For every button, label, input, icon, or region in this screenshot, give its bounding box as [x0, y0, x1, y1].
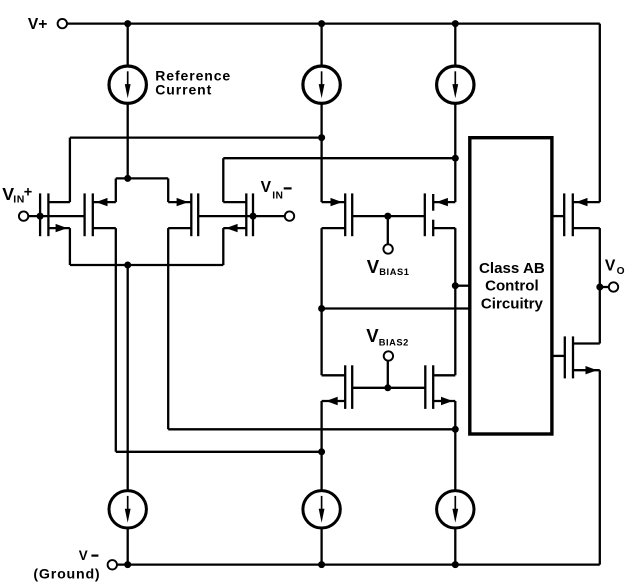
wire M2 source up to tail: [115, 178, 117, 202]
wire right summing node to Class AB box: [455, 285, 470, 287]
node left summing junction: [318, 305, 325, 312]
node NMOS tail junction: [124, 262, 131, 269]
terminal V+: [58, 19, 67, 28]
svg-text:Class AB: Class AB: [479, 260, 545, 277]
node PMOS tail junction: [124, 175, 131, 182]
wire M2 drain down to cross wire: [115, 228, 117, 452]
wire M10 source down to V- rail: [599, 370, 601, 564]
Class AB control circuitry box: [470, 138, 552, 434]
label V- (Ground): [33, 548, 100, 582]
transistor M2 (PMOS, non-inverting input): [85, 193, 116, 236]
transistor M1 (NMOS, non-inverting input): [40, 193, 70, 236]
transistor M6 (PMOS cascode, right, broken channel): [425, 193, 456, 236]
svg-text:BIAS1: BIAS1: [379, 267, 409, 277]
svg-text:+: +: [24, 185, 32, 201]
wire left summing node down to M7 drain: [320, 309, 322, 376]
svg-text:V: V: [605, 257, 616, 274]
label VBIAS1: [367, 256, 410, 277]
wire VBIAS1 stem: [387, 216, 389, 244]
transistor M7 (NMOS cascode, left): [322, 365, 353, 409]
transistor M10 (NMOS output): [565, 336, 600, 378]
node A junction of I2 with bus from M1 drain: [318, 134, 325, 141]
svg-text:Circuitry: Circuitry: [481, 295, 544, 312]
terminal VBIAS1: [383, 244, 392, 253]
wire right edge from V+ rail down to M9 source: [599, 24, 601, 203]
svg-text:V: V: [261, 179, 272, 196]
wire M3 drain down to cross wire: [167, 228, 169, 429]
wire M1 drain riser: [69, 138, 71, 203]
wire I4 to V- rail: [127, 528, 129, 565]
wire VBIAS1 gate wire M5 to M6: [352, 215, 425, 217]
svg-text:Current: Current: [155, 82, 212, 98]
label Class AB Control Circuitry: [479, 260, 545, 312]
wire node A down to M5 source: [320, 138, 322, 203]
node output junction: [596, 284, 603, 291]
wire M8 source down to current source I6: [454, 401, 456, 491]
wire M6 drain down to M8 drain: [454, 228, 456, 375]
wire M5 drain down to left summing node: [320, 228, 322, 308]
svg-text:V: V: [79, 548, 88, 563]
wire M9 drain down to output node: [599, 228, 601, 343]
wire M2 drain cross wire: [116, 451, 322, 453]
label VIN-: [261, 179, 292, 201]
node junction I5 at V- rail: [318, 561, 325, 568]
current source I2: [303, 66, 340, 103]
node junction on V+ rail at reference current column: [124, 20, 131, 27]
node junction I4 at V- rail: [124, 561, 131, 568]
wire node B down to M6 source: [454, 158, 456, 202]
wire I5 to V- rail: [320, 528, 322, 565]
node junction M2 drain with M7 source: [318, 448, 325, 455]
svg-text:IN: IN: [272, 190, 283, 201]
terminal VBIAS2: [384, 351, 393, 360]
node junction on V+ rail at third current source column: [452, 20, 459, 27]
svg-text:V: V: [367, 256, 380, 277]
wire VBIAS2 stem: [387, 361, 389, 388]
svg-text:Control: Control: [485, 278, 539, 295]
current source I6: [437, 491, 474, 528]
wire I3 output down to node B: [454, 103, 456, 158]
wire M3 drain cross wire: [168, 428, 455, 430]
node right summing junction: [452, 282, 459, 289]
wire PMOS pair tail: [116, 177, 168, 179]
current source I3: [437, 66, 474, 103]
wire V- (ground) rail: [117, 563, 600, 565]
wire V+ rail to current source I2: [320, 24, 322, 66]
terminal VO: [609, 282, 618, 291]
node VBIAS1 junction: [384, 213, 391, 220]
transistor M8 (NMOS cascode, right): [425, 365, 455, 409]
transistor M4 (NMOS, inverting input): [223, 193, 253, 236]
wire VIN- to gates of M3 and M4: [198, 215, 285, 217]
svg-text:V: V: [366, 325, 379, 346]
node VBIAS2 junction: [384, 384, 391, 391]
wire M7 source down to current source I5: [320, 401, 322, 491]
wire M1 source down to NMOS tail: [69, 228, 71, 265]
current source I4: [109, 491, 146, 528]
node junction I6 at V- rail: [452, 561, 459, 568]
wire M4 drain riser: [222, 158, 224, 202]
node junction M3 drain with M8 source: [452, 426, 459, 433]
label VO: [605, 257, 625, 277]
wire NMOS tail down to current source I4: [127, 265, 129, 491]
current source I1 (reference current): [109, 66, 146, 103]
svg-text:BIAS2: BIAS2: [379, 338, 409, 348]
node VIN- junction at M4 gate: [250, 213, 257, 220]
wire output node to VO terminal: [600, 286, 609, 288]
wire Class AB box to M10 gate: [554, 355, 565, 357]
wire V+ rail to reference current source I1: [127, 24, 129, 66]
wire Class AB box to M9 gate: [554, 215, 565, 217]
svg-text:(Ground): (Ground): [33, 566, 100, 582]
current source I5: [303, 491, 340, 528]
wire M3 source up to tail: [167, 178, 169, 202]
wire V+ rail: [67, 22, 600, 24]
label VBIAS2: [366, 325, 409, 348]
terminal VIN-: [285, 211, 294, 220]
svg-text:O: O: [617, 266, 625, 277]
svg-text:V+: V+: [28, 16, 48, 33]
transistor M9 (PMOS output): [564, 193, 600, 236]
wire V+ rail to current source I3: [454, 24, 456, 66]
node junction on V+ rail at second current source column: [318, 20, 325, 27]
wire M4 source down to NMOS tail: [222, 228, 224, 265]
node VIN+ junction at M1 gate: [37, 213, 44, 220]
wire VIN+ to gates of M1 and M2: [28, 215, 84, 217]
node B junction of I3 with bus from M4 drain: [452, 155, 459, 162]
wire left summing node to Class AB box: [322, 307, 470, 309]
label VIN+: [2, 184, 32, 206]
wire I1 output down to PMOS pair tail node: [127, 103, 129, 178]
wire I2 output down to node A: [320, 103, 322, 137]
wire VBIAS2 gate wire M7 to M8: [352, 387, 425, 389]
transistor M3 (PMOS, inverting input): [168, 193, 198, 236]
transistor M5 (PMOS cascode, left): [322, 193, 353, 236]
terminal VIN+: [19, 211, 28, 220]
wire bus M1 drain to node A: [70, 136, 322, 138]
wire bus M4 drain to node B: [223, 157, 455, 159]
wire NMOS pair tail rail: [70, 264, 223, 266]
terminal V-: [108, 560, 117, 569]
wire I6 to V- rail: [454, 528, 456, 565]
